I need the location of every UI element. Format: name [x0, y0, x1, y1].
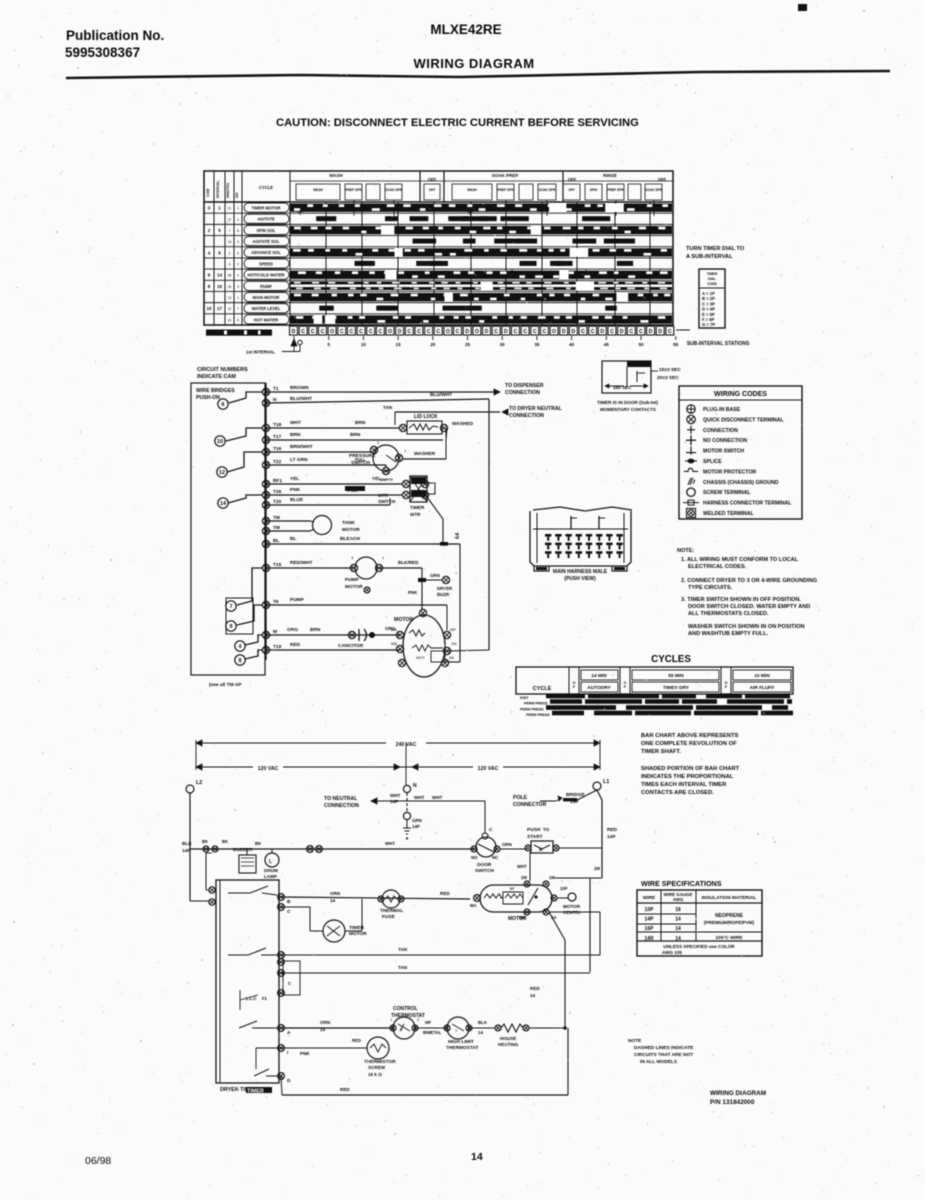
svg-text:4: 4: [208, 250, 211, 255]
svg-text:WASH: WASH: [313, 188, 323, 192]
svg-text:10 MIN: 10 MIN: [754, 673, 770, 679]
svg-text:MOTOR SWITCH: MOTOR SWITCH: [703, 449, 744, 455]
svg-text:1. ALL WIRING MUST CONFORM TO: 1. ALL WIRING MUST CONFORM TO LOCAL: [681, 557, 799, 563]
svg-text:WHT: WHT: [414, 795, 425, 800]
svg-text:MOMENTARY CONTACTS: MOMENTARY CONTACTS: [600, 407, 656, 412]
svg-text:BUZZER: BUZZER: [233, 847, 253, 853]
svg-text:5A: 5A: [449, 655, 454, 660]
svg-text:BLUE: BLUE: [290, 497, 304, 503]
svg-text:3. TIMER SWITCH SHOWN IN OFF: 3. TIMER SWITCH SHOWN IN OFF POSITION.: [681, 597, 801, 603]
svg-text:PNK: PNK: [408, 590, 418, 595]
svg-text:8: 8: [237, 229, 239, 233]
svg-text:C: C: [369, 329, 373, 335]
svg-text:9: 9: [230, 624, 233, 630]
svg-text:CONNECTION: CONNECTION: [703, 428, 738, 434]
svg-text:4: 4: [239, 644, 242, 650]
svg-text:5: 5: [327, 342, 330, 347]
svg-text:180 SEC: 180 SEC: [613, 385, 632, 390]
svg-text:N: N: [413, 783, 417, 789]
svg-text:MP: MP: [450, 627, 456, 632]
svg-text:WHT: WHT: [385, 841, 395, 846]
svg-text:INDICATES THE PROPORTIONAL: INDICATES THE PROPORTIONAL: [641, 774, 734, 780]
svg-text:KNIT: KNIT: [520, 696, 529, 700]
svg-text:WHT: WHT: [432, 795, 443, 800]
svg-text:(PUSH VIEW): (PUSH VIEW): [564, 576, 596, 582]
svg-text:DOOR SWITCH CLOSED. WATER EMPT: DOOR SWITCH CLOSED. WATER EMPTY AND: [688, 604, 810, 610]
svg-text:TIMER IS IN DOOR (Sub-Int): TIMER IS IN DOOR (Sub-Int): [597, 400, 658, 405]
svg-text:14: 14: [478, 1030, 483, 1035]
svg-text:NEOPRENE: NEOPRENE: [715, 913, 744, 919]
svg-text:PNK: PNK: [300, 1051, 310, 1056]
svg-text:ORN: ORN: [330, 891, 341, 896]
svg-text:CONNECTION: CONNECTION: [505, 390, 540, 396]
svg-text:MOTOR PROTECTOR: MOTOR PROTECTOR: [703, 469, 756, 475]
svg-text:O: O: [552, 329, 556, 335]
svg-text:10P: 10P: [645, 907, 655, 913]
svg-text:RED: RED: [340, 1087, 350, 1092]
svg-text:14P: 14P: [607, 834, 616, 840]
svg-text:PREP SPR: PREP SPR: [607, 188, 624, 192]
svg-text:10: 10: [228, 318, 232, 322]
svg-text:OFF: OFF: [568, 188, 574, 192]
svg-text:1M: 1M: [451, 641, 457, 646]
svg-text:F1: F1: [262, 996, 268, 1001]
svg-text:PERM PRESS: PERM PRESS: [526, 713, 550, 717]
svg-text:O: O: [388, 329, 392, 335]
svg-text:SHADED PORTION OF BAR CHART: SHADED PORTION OF BAR CHART: [641, 766, 740, 772]
svg-text:MB: MB: [391, 641, 397, 646]
svg-text:14: 14: [320, 1027, 326, 1032]
svg-text:D: D: [620, 329, 624, 335]
svg-text:16P: 16P: [645, 926, 655, 932]
svg-text:AUTODRY: AUTODRY: [587, 685, 611, 691]
svg-text:3: 3: [351, 555, 354, 560]
svg-text:CAM: CAM: [206, 189, 210, 197]
svg-text:2: 2: [237, 207, 239, 211]
svg-text:D: D: [504, 329, 508, 335]
svg-text:7: 7: [230, 604, 233, 610]
svg-text:M: M: [539, 847, 543, 852]
svg-text:DRYER: DRYER: [437, 586, 453, 591]
svg-text:BAR CHART ABOVE REPRESENTS: BAR CHART ABOVE REPRESENTS: [641, 733, 739, 739]
svg-text:L2: L2: [196, 780, 202, 786]
svg-text:DASHED LINES INDICATE: DASHED LINES INDICATE: [634, 1045, 694, 1051]
svg-text:SWITCH: SWITCH: [378, 499, 395, 504]
svg-text:F: F: [573, 685, 576, 689]
svg-text:TO DRYER NEUTRAL: TO DRYER NEUTRAL: [509, 406, 563, 412]
svg-text:SW: SW: [235, 192, 239, 198]
svg-text:10P: 10P: [560, 886, 568, 891]
svg-text:MINUTES: MINUTES: [226, 182, 230, 198]
svg-text:14: 14: [228, 240, 232, 244]
svg-text:B: B: [287, 899, 291, 905]
svg-text:D: D: [398, 329, 402, 335]
svg-text:WASHER: WASHER: [414, 451, 436, 457]
svg-text:2: 2: [208, 228, 211, 233]
svg-text:LID LOCK: LID LOCK: [414, 414, 438, 420]
svg-text:NC: NC: [492, 855, 499, 860]
svg-text:64: 64: [455, 532, 461, 539]
svg-text:NOTE:: NOTE:: [677, 548, 695, 554]
svg-text:SOAK SPR: SOAK SPR: [645, 188, 662, 192]
svg-text:C: C: [407, 329, 411, 335]
svg-text:LAMP: LAMP: [264, 874, 277, 879]
svg-text:WASHED: WASHED: [452, 421, 474, 427]
svg-text:O: O: [475, 329, 479, 335]
svg-text:WTR: WTR: [410, 512, 421, 517]
svg-text:HARNESS CONNECTOR TERMINAL: HARNESS CONNECTOR TERMINAL: [703, 501, 792, 507]
svg-text:YEL: YEL: [290, 476, 299, 482]
svg-text:BLU/WHT: BLU/WHT: [430, 392, 452, 398]
svg-text:M: M: [273, 629, 277, 635]
svg-text:14R: 14R: [644, 936, 654, 942]
svg-text:TANK: TANK: [342, 520, 356, 526]
svg-text:CANCITOR: CANCITOR: [338, 643, 364, 649]
svg-text:TAN: TAN: [398, 947, 408, 952]
svg-text:TIMER: TIMER: [247, 1089, 264, 1095]
svg-text:DRUM: DRUM: [264, 868, 278, 873]
svg-text:BF1: BF1: [273, 478, 282, 484]
svg-text:4: 4: [237, 274, 239, 278]
svg-text:14P: 14P: [645, 917, 655, 923]
svg-text:OFF: OFF: [658, 177, 667, 182]
svg-text:55 MIN: 55 MIN: [668, 673, 684, 679]
svg-text:2: 2: [237, 263, 239, 267]
svg-text:TIMES EACH INTERVAL TIMER: TIMES EACH INTERVAL TIMER: [641, 782, 727, 788]
svg-text:RED: RED: [352, 1038, 361, 1043]
svg-text:THERMAL: THERMAL: [380, 908, 404, 914]
svg-text:P/N 131842000: P/N 131842000: [710, 1099, 755, 1106]
svg-text:BRN: BRN: [355, 420, 366, 426]
svg-text:WIRING DIAGRAM: WIRING DIAGRAM: [413, 56, 534, 71]
svg-text:GRN: GRN: [430, 573, 440, 578]
svg-text:26: 26: [228, 285, 232, 289]
svg-text:INSULATION MATERIAL: INSULATION MATERIAL: [702, 895, 757, 901]
svg-text:HOT/COLD WATER: HOT/COLD WATER: [248, 273, 285, 278]
svg-text:TO: TO: [543, 827, 550, 832]
svg-text:40: 40: [569, 342, 575, 347]
svg-text:C: C: [456, 329, 460, 335]
svg-text:PNK: PNK: [290, 487, 301, 493]
svg-text:C: C: [350, 329, 354, 335]
svg-text:SUB-INTERVAL STATIONS: SUB-INTERVAL STATIONS: [687, 341, 750, 347]
svg-text:N: N: [273, 397, 277, 403]
svg-text:WHT: WHT: [416, 656, 425, 660]
svg-text:C: C: [581, 329, 585, 335]
svg-text:OFF: OFF: [429, 188, 435, 192]
svg-text:10: 10: [206, 306, 212, 311]
svg-text:HIGH LIMIT: HIGH LIMIT: [448, 1039, 474, 1045]
svg-text:MA: MA: [391, 627, 397, 632]
svg-text:8: 8: [208, 284, 211, 289]
svg-text:50: 50: [638, 342, 644, 347]
svg-text:D: D: [600, 329, 604, 335]
svg-text:CYCLES: CYCLES: [651, 654, 691, 665]
svg-text:120 VAC: 120 VAC: [478, 766, 499, 772]
svg-text:C: C: [288, 981, 291, 986]
svg-text:T22: T22: [273, 459, 282, 465]
svg-text:HOT WATER: HOT WATER: [254, 317, 278, 322]
svg-text:ALL THERMOSTATS CLOSED.: ALL THERMOSTATS CLOSED.: [688, 611, 769, 617]
svg-text:PERM PRESS: PERM PRESS: [520, 707, 544, 711]
svg-text:20±3 SEC: 20±3 SEC: [657, 375, 679, 381]
svg-text:TIMER: TIMER: [707, 272, 718, 276]
svg-text:T17: T17: [273, 434, 282, 440]
svg-text:C: C: [523, 329, 527, 335]
svg-text:9: 9: [218, 250, 221, 255]
svg-text:13: 13: [228, 296, 232, 300]
svg-text:6: 6: [208, 273, 211, 278]
svg-text:AWG: AWG: [673, 897, 684, 902]
svg-text:SOAK SPR: SOAK SPR: [385, 188, 402, 192]
svg-text:CONTACTS ARE CLOSED.: CONTACTS ARE CLOSED.: [641, 790, 714, 796]
svg-text:5995308367: 5995308367: [65, 45, 140, 60]
svg-text:105°C WIRE: 105°C WIRE: [715, 935, 743, 941]
svg-text:35: 35: [534, 342, 540, 347]
svg-text:SPIN: SPIN: [590, 188, 598, 192]
svg-text:TAN: TAN: [383, 405, 393, 410]
svg-text:6: 6: [222, 402, 225, 408]
svg-text:WTR: WTR: [378, 493, 389, 498]
svg-text:SWITCH: SWITCH: [475, 868, 494, 874]
svg-text:WIRING CODES: WIRING CODES: [714, 391, 767, 398]
svg-text:1: 1: [218, 206, 221, 211]
svg-text:2: 2: [377, 440, 380, 445]
svg-text:GRN: GRN: [412, 818, 422, 823]
svg-text:C: C: [287, 909, 291, 915]
svg-text:PLUG-IN BASE: PLUG-IN BASE: [703, 407, 741, 413]
svg-text:1: 1: [404, 448, 407, 453]
svg-text:YEL: YEL: [372, 476, 381, 481]
svg-text:MAIN HARNESS MALE: MAIN HARNESS MALE: [553, 569, 608, 575]
svg-text:D: D: [485, 329, 489, 335]
svg-text:BUZR: BUZR: [437, 592, 450, 597]
svg-text:WHT: WHT: [290, 420, 301, 426]
svg-text:ONE COMPLETE REVOLUTION OF: ONE COMPLETE REVOLUTION OF: [641, 741, 737, 747]
svg-text:D: D: [562, 329, 566, 335]
svg-text:AWG 105: AWG 105: [662, 950, 682, 955]
svg-text:10: 10: [228, 307, 232, 311]
svg-text:WHT: WHT: [390, 793, 401, 798]
svg-text:14 MIN: 14 MIN: [591, 673, 607, 679]
svg-text:T20: T20: [273, 499, 282, 505]
svg-text:14: 14: [471, 1151, 483, 1163]
svg-text:1: 1: [382, 555, 385, 560]
svg-text:D: D: [292, 329, 296, 335]
svg-text:EMPTY: EMPTY: [380, 478, 394, 482]
svg-text:V: V: [400, 1027, 403, 1032]
svg-text:BL: BL: [273, 538, 279, 544]
svg-text:16: 16: [675, 907, 681, 913]
svg-text:CONNECTION: CONNECTION: [324, 803, 359, 809]
svg-text:14: 14: [675, 926, 681, 932]
svg-text:WIRING DIAGRAM: WIRING DIAGRAM: [710, 1090, 766, 1097]
svg-text:T26: T26: [273, 489, 282, 495]
svg-text:16 k Ω: 16 k Ω: [368, 1072, 382, 1077]
svg-text:C: C: [514, 329, 518, 335]
svg-text:NO CONNECTION: NO CONNECTION: [703, 438, 747, 444]
svg-text:PERM PRESS: PERM PRESS: [524, 701, 548, 705]
svg-text:C: C: [610, 329, 614, 335]
svg-text:10: 10: [361, 342, 367, 347]
svg-text:C: C: [378, 329, 382, 335]
svg-text:28: 28: [228, 274, 232, 278]
svg-text:NOTE: NOTE: [628, 1038, 642, 1044]
svg-text:120 VAC: 120 VAC: [258, 766, 279, 772]
svg-text:7: 7: [229, 229, 231, 233]
svg-text:C: C: [417, 329, 421, 335]
svg-text:SCREW: SCREW: [368, 1065, 386, 1070]
svg-text:FULL: FULL: [355, 457, 366, 462]
svg-text:AND WASHTUB EMPTY FULL.: AND WASHTUB EMPTY FULL.: [688, 631, 769, 637]
svg-text:D: D: [287, 1078, 291, 1084]
svg-text:OFF: OFF: [568, 177, 577, 182]
svg-text:ORG: ORG: [287, 627, 298, 633]
svg-text:TIMER SHAFT.: TIMER SHAFT.: [641, 749, 681, 755]
svg-text:1st INTERVAL: 1st INTERVAL: [246, 350, 275, 355]
svg-text:RED: RED: [530, 986, 540, 991]
svg-text:D: D: [465, 329, 469, 335]
svg-text:INDICATE CAM: INDICATE CAM: [197, 374, 236, 380]
svg-text:TIMER MOTOR: TIMER MOTOR: [251, 205, 280, 210]
svg-text:T16: T16: [273, 446, 282, 452]
svg-text:WIRE BRIDGES: WIRE BRIDGES: [196, 388, 235, 394]
svg-text:FUSE: FUSE: [382, 914, 396, 920]
svg-text:WASH: WASH: [467, 188, 477, 192]
svg-text:DIAL: DIAL: [708, 277, 716, 281]
svg-text:CONTROL: CONTROL: [393, 1006, 418, 1012]
svg-text:14: 14: [217, 273, 223, 278]
svg-text:BRN/WHT: BRN/WHT: [290, 444, 313, 450]
svg-text:O: O: [446, 329, 450, 335]
svg-text:CYCLE: CYCLE: [533, 686, 552, 692]
svg-text:06/98: 06/98: [85, 1155, 111, 1167]
svg-text:ORN: ORN: [502, 842, 512, 847]
svg-text:TO DISPENSER: TO DISPENSER: [505, 383, 544, 389]
svg-text:MA: MA: [470, 903, 477, 908]
svg-text:BRN: BRN: [350, 432, 361, 438]
svg-text:WELDED TERMINAL: WELDED TERMINAL: [703, 511, 755, 517]
svg-text:WHT: WHT: [517, 864, 527, 869]
svg-text:7: 7: [237, 307, 239, 311]
svg-text:RED: RED: [290, 642, 301, 648]
svg-text:QUICK DISCONNECT TERMINAL: QUICK DISCONNECT TERMINAL: [703, 417, 785, 423]
svg-text:BRN: BRN: [310, 627, 321, 633]
svg-text:O: O: [330, 329, 334, 335]
svg-text:MOTOR: MOTOR: [349, 931, 367, 937]
svg-text:THERMOSTAT: THERMOSTAT: [446, 1045, 479, 1051]
svg-text:C: C: [436, 329, 440, 335]
svg-text:TIMER: TIMER: [410, 505, 425, 510]
svg-text:TO NEUTRAL: TO NEUTRAL: [324, 796, 358, 802]
svg-text:15±3 SEC: 15±3 SEC: [659, 367, 681, 373]
svg-text:RINSE: RINSE: [603, 173, 617, 178]
svg-text:PREP SPR: PREP SPR: [345, 188, 362, 192]
svg-text:T18: T18: [273, 422, 282, 428]
svg-text:D: D: [649, 329, 653, 335]
svg-text:L: L: [269, 859, 272, 865]
svg-text:AGITATE: AGITATE: [257, 217, 275, 222]
svg-text:C: C: [591, 329, 595, 335]
svg-text:BK: BK: [222, 839, 228, 844]
svg-text:10: 10: [217, 439, 223, 445]
svg-text:20: 20: [430, 342, 436, 347]
svg-text:F: F: [725, 685, 728, 689]
svg-text:14: 14: [675, 917, 681, 923]
svg-text:CIRCUIT NUMBERS: CIRCUIT NUMBERS: [197, 367, 248, 373]
svg-text:CAUTION: DISCONNECT ELECTRIC C: CAUTION: DISCONNECT ELECTRIC CURRENT BEF…: [276, 117, 639, 129]
svg-text:17: 17: [217, 306, 223, 311]
svg-text:WATER LEVEL: WATER LEVEL: [252, 306, 281, 311]
svg-text:4: 4: [237, 218, 239, 222]
svg-text:CYCLE: CYCLE: [259, 185, 273, 190]
svg-text:NO: NO: [471, 855, 478, 860]
svg-text:HEATING: HEATING: [498, 1042, 519, 1047]
svg-text:C: C: [639, 329, 643, 335]
svg-text:PUMP: PUMP: [345, 577, 360, 583]
svg-text:C: C: [629, 329, 633, 335]
svg-text:L1: L1: [603, 779, 609, 785]
svg-text:14P: 14P: [412, 824, 420, 829]
svg-text:SOAK PREP: SOAK PREP: [492, 173, 519, 178]
svg-text:CONNECTION: CONNECTION: [509, 413, 544, 419]
svg-text:DOOR: DOOR: [477, 862, 492, 868]
svg-text:TAN: TAN: [398, 965, 408, 970]
svg-text:A SUB-INTERVAL: A SUB-INTERVAL: [686, 254, 733, 260]
svg-text:3: 3: [237, 240, 239, 244]
svg-text:C: C: [340, 329, 344, 335]
svg-text:CIRCUITS THAT ARE NOT: CIRCUITS THAT ARE NOT: [634, 1052, 693, 1058]
svg-text:UNLESS SPECIFIED use COLOR: UNLESS SPECIFIED use COLOR: [663, 944, 735, 949]
svg-text:2: 2: [229, 251, 231, 255]
svg-text:(PREMIUM/ROPE/PVM): (PREMIUM/ROPE/PVM): [704, 920, 755, 925]
svg-text:MOTOR: MOTOR: [508, 916, 527, 922]
svg-text:T1: T1: [273, 386, 279, 392]
svg-text:BRN: BRN: [290, 432, 301, 438]
svg-text:4: 4: [237, 251, 239, 255]
svg-text:BLK/RED: BLK/RED: [398, 560, 419, 565]
svg-text:MOTOR: MOTOR: [345, 584, 363, 590]
svg-text:9: 9: [237, 318, 239, 322]
svg-text:D: D: [658, 329, 662, 335]
svg-text:14: 14: [220, 501, 226, 507]
svg-text:BLU/WHT: BLU/WHT: [290, 396, 312, 402]
svg-text:5: 5: [218, 228, 221, 233]
svg-text:0: 0: [208, 206, 211, 211]
svg-text:OFF: OFF: [428, 177, 437, 182]
svg-text:12: 12: [219, 470, 225, 476]
svg-text:ORN: ORN: [320, 1020, 331, 1025]
svg-text:3: 3: [237, 285, 239, 289]
svg-text:PUMP: PUMP: [290, 597, 305, 603]
svg-text:30: 30: [500, 342, 506, 347]
svg-text:ADVANCE SOL: ADVANCE SOL: [251, 250, 281, 255]
svg-text:C: C: [321, 329, 325, 335]
svg-text:SPIN SOL: SPIN SOL: [256, 228, 276, 233]
svg-text:RED: RED: [607, 827, 618, 833]
svg-text:START: START: [527, 834, 543, 840]
svg-text:BK: BK: [202, 839, 208, 844]
svg-text:TM: TM: [273, 525, 280, 531]
svg-text:Y: Y: [455, 1028, 458, 1033]
svg-text:15: 15: [396, 342, 402, 347]
svg-text:C: C: [301, 329, 305, 335]
svg-text:I: I: [287, 1050, 289, 1056]
svg-text:CODE: CODE: [707, 282, 718, 286]
svg-text:TYPE CIRCUITS.: TYPE CIRCUITS.: [688, 585, 733, 591]
svg-text:4: 4: [229, 263, 231, 267]
svg-text:HOUSE: HOUSE: [500, 1036, 516, 1041]
